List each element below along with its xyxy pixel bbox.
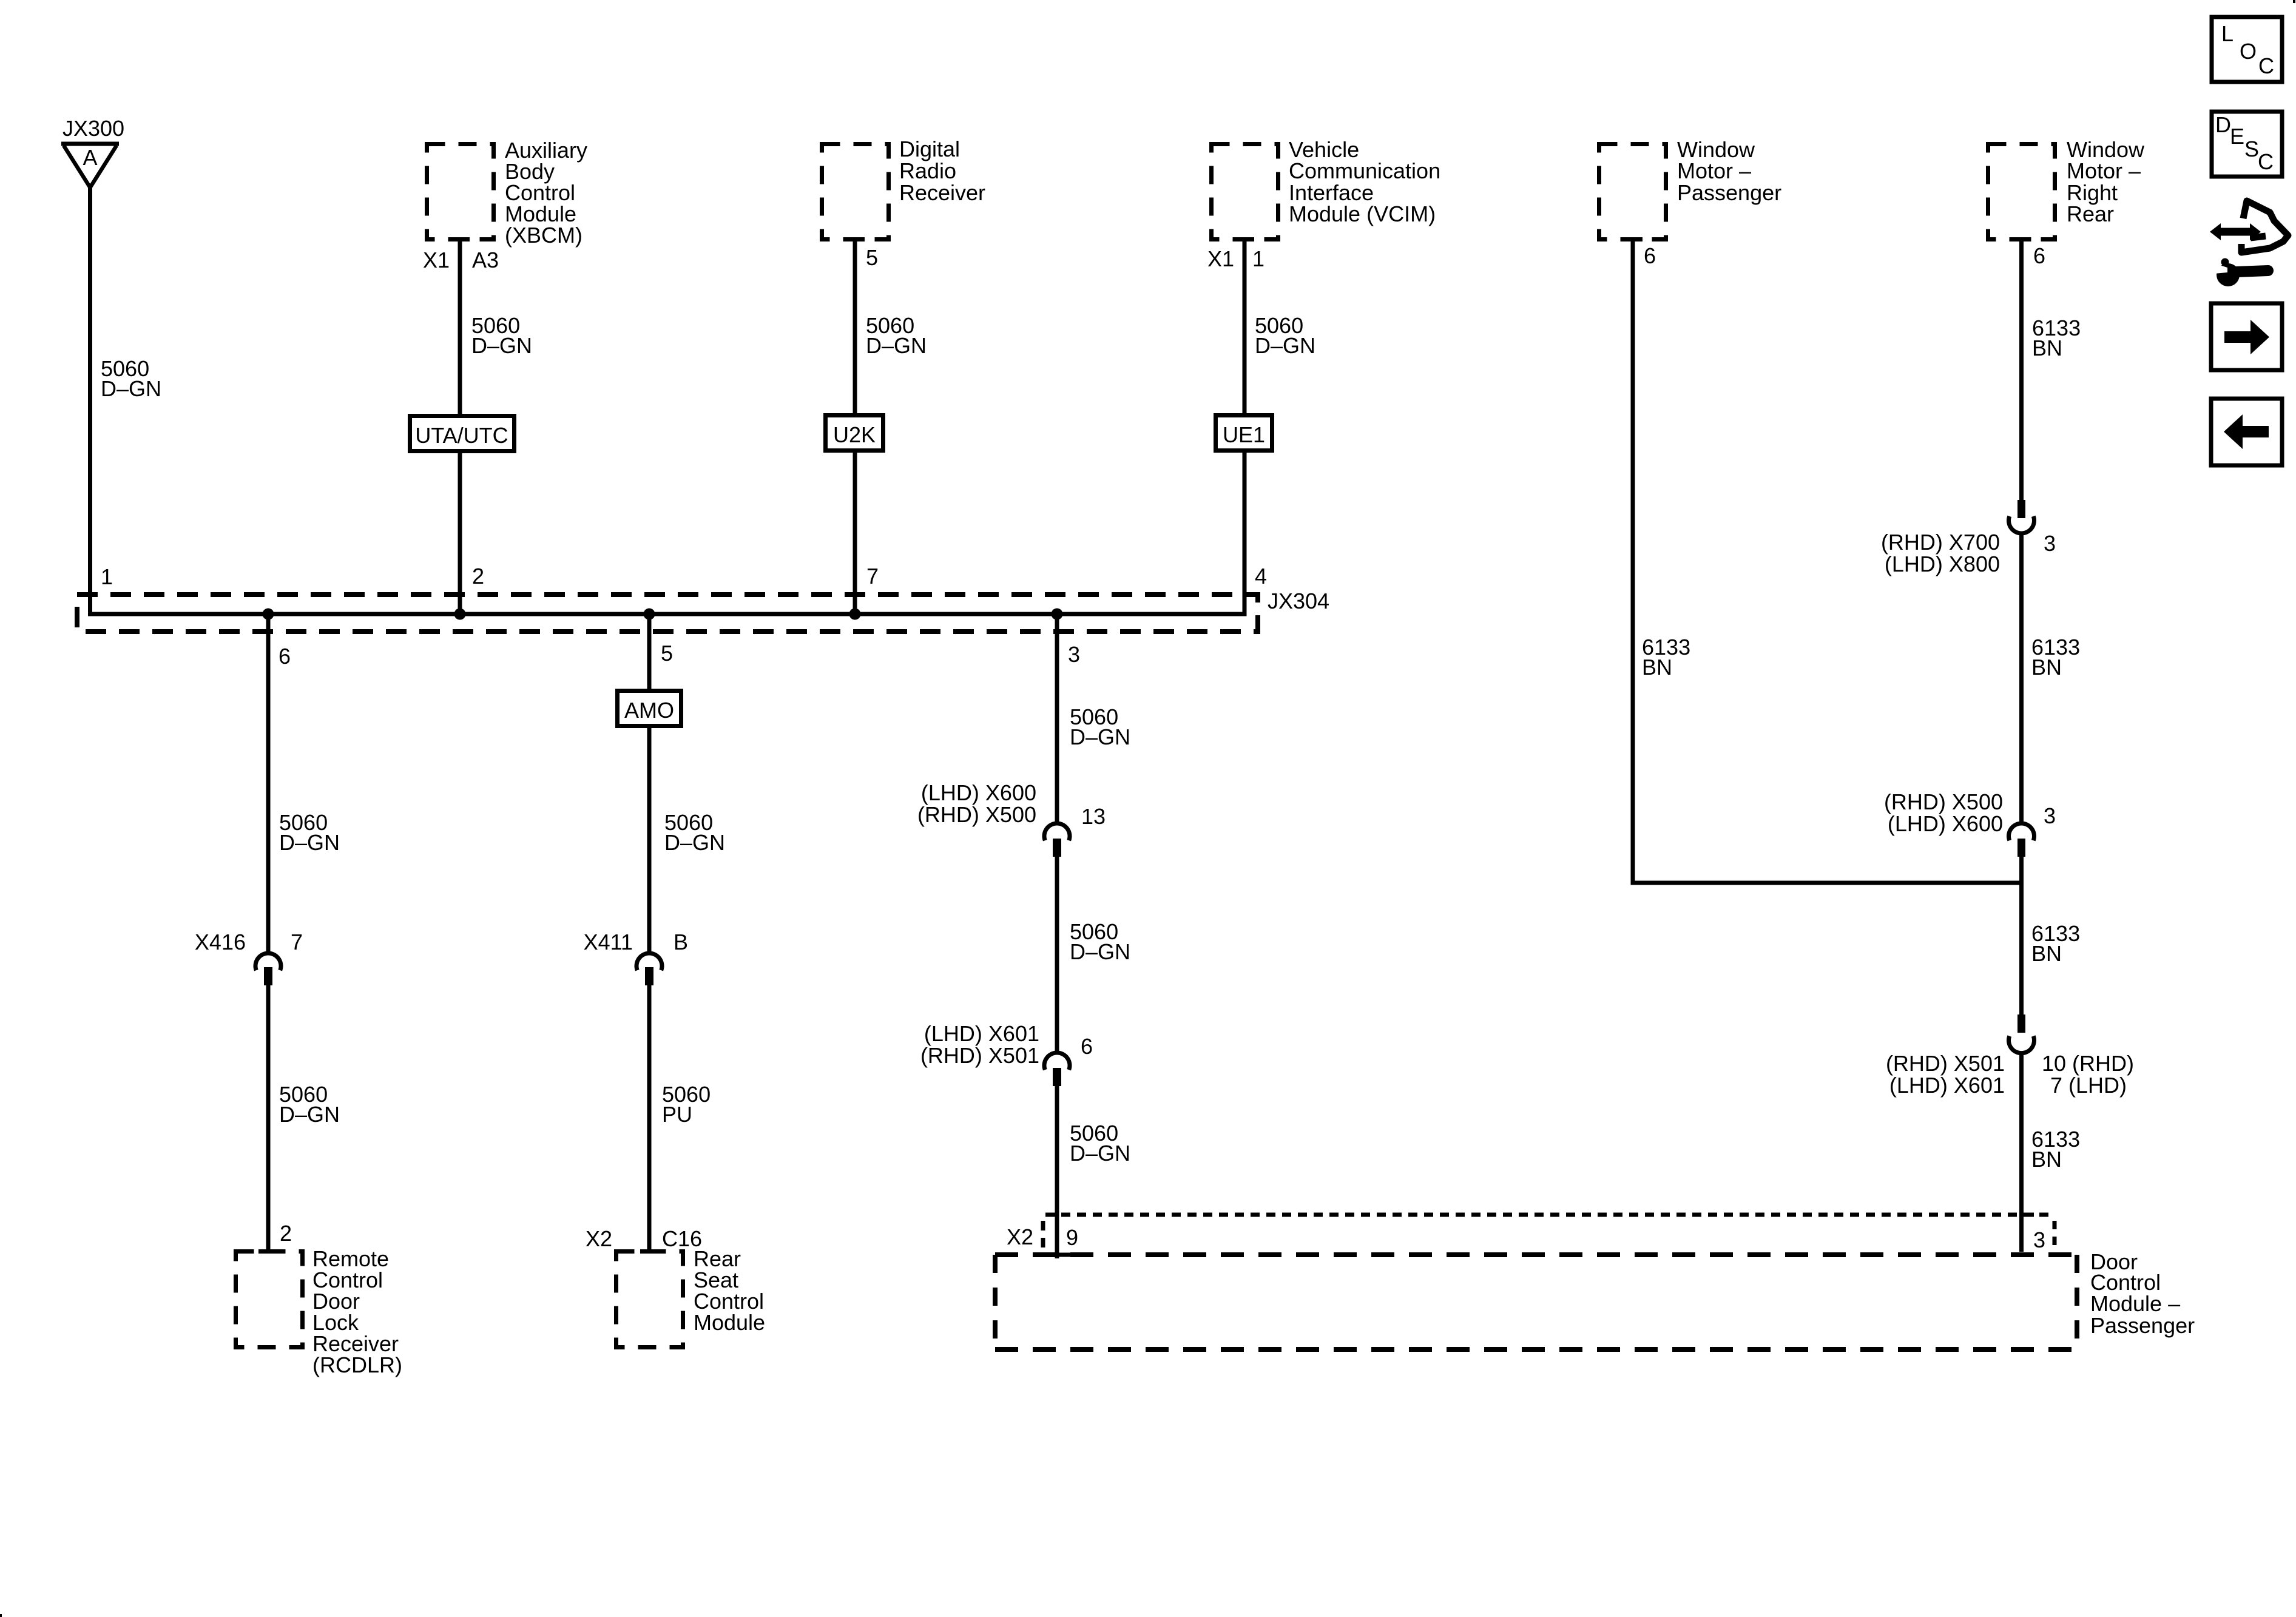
svg-text:Radio: Radio: [899, 158, 956, 183]
svg-text:(RHD) X700: (RHD) X700: [1881, 530, 2000, 555]
svg-text:Module –: Module –: [2090, 1291, 2180, 1316]
svg-text:9: 9: [1066, 1225, 1078, 1250]
svg-text:(LHD) X800: (LHD) X800: [1885, 552, 2000, 576]
svg-text:JX304: JX304: [1268, 589, 1329, 613]
svg-text:7: 7: [866, 564, 879, 589]
svg-text:Digital: Digital: [899, 137, 960, 161]
svg-text:D–GN: D–GN: [1070, 939, 1130, 964]
svg-text:(LHD) X600: (LHD) X600: [1888, 811, 2003, 836]
svg-text:(RHD) X501: (RHD) X501: [920, 1043, 1039, 1068]
svg-text:C: C: [2258, 149, 2274, 174]
svg-text:BN: BN: [1642, 655, 1672, 680]
svg-text:(RHD) X500: (RHD) X500: [917, 802, 1036, 827]
svg-text:3: 3: [2033, 1227, 2045, 1252]
svg-text:X1: X1: [423, 248, 450, 272]
svg-text:BN: BN: [2031, 1147, 2062, 1172]
svg-text:D: D: [2215, 112, 2231, 137]
svg-text:BN: BN: [2032, 336, 2062, 360]
svg-text:6: 6: [1644, 243, 1656, 268]
svg-text:4: 4: [1255, 564, 1267, 589]
svg-text:BN: BN: [2031, 941, 2062, 966]
svg-text:(RCDLR): (RCDLR): [312, 1352, 402, 1377]
svg-text:(LHD) X601: (LHD) X601: [924, 1021, 1039, 1046]
svg-text:5: 5: [866, 245, 878, 270]
svg-text:2: 2: [280, 1221, 292, 1246]
svg-text:Receiver: Receiver: [899, 180, 985, 205]
svg-text:L: L: [2221, 21, 2234, 46]
svg-text:BN: BN: [2031, 655, 2062, 680]
svg-text:D–GN: D–GN: [1255, 333, 1315, 358]
svg-text:2: 2: [472, 564, 484, 589]
svg-text:PU: PU: [662, 1102, 692, 1127]
svg-text:D–GN: D–GN: [1070, 1141, 1130, 1166]
svg-text:A: A: [83, 145, 97, 170]
svg-text:1: 1: [101, 564, 113, 589]
svg-text:(RHD) X501: (RHD) X501: [1886, 1051, 2005, 1076]
svg-text:UE1: UE1: [1223, 422, 1265, 447]
svg-text:Rear: Rear: [2067, 201, 2114, 226]
svg-text:(LHD) X601: (LHD) X601: [1889, 1073, 2005, 1098]
svg-text:3: 3: [2044, 803, 2056, 828]
svg-text:Motor –: Motor –: [1677, 158, 1751, 183]
svg-text:D–GN: D–GN: [1070, 724, 1130, 749]
svg-text:X1: X1: [1207, 246, 1234, 271]
svg-text:Passenger: Passenger: [2090, 1313, 2195, 1338]
svg-text:AMO: AMO: [624, 698, 674, 723]
svg-text:D–GN: D–GN: [279, 1102, 340, 1127]
svg-text:5: 5: [661, 641, 673, 666]
svg-text:O: O: [2240, 39, 2257, 64]
svg-text:UTA/UTC: UTA/UTC: [415, 423, 508, 448]
svg-text:7: 7: [291, 930, 303, 954]
svg-text:X416: X416: [195, 930, 246, 954]
svg-text:(LHD) X600: (LHD) X600: [921, 780, 1036, 805]
svg-text:U2K: U2K: [833, 422, 876, 447]
svg-text:Communication: Communication: [1289, 158, 1440, 183]
svg-text:Motor –: Motor –: [2067, 158, 2141, 183]
svg-text:Passenger: Passenger: [1677, 180, 1781, 205]
svg-text:A3: A3: [472, 248, 499, 272]
svg-text:Module: Module: [694, 1310, 765, 1335]
svg-text:D–GN: D–GN: [664, 830, 725, 855]
svg-text:1: 1: [1252, 246, 1264, 271]
svg-text:B: B: [674, 930, 688, 954]
svg-text:6: 6: [279, 644, 291, 669]
svg-text:X411: X411: [584, 930, 633, 954]
svg-text:3: 3: [1068, 642, 1080, 667]
svg-text:D–GN: D–GN: [279, 830, 340, 855]
svg-text:10 (RHD): 10 (RHD): [2042, 1051, 2134, 1076]
svg-text:D–GN: D–GN: [471, 333, 532, 358]
svg-text:6: 6: [1081, 1034, 1093, 1059]
svg-text:(RHD) X500: (RHD) X500: [1884, 789, 2003, 814]
svg-text:X2: X2: [1007, 1224, 1033, 1249]
svg-text:S: S: [2244, 137, 2259, 161]
svg-text:13: 13: [1081, 804, 1106, 829]
svg-text:D–GN: D–GN: [866, 333, 927, 358]
svg-text:D–GN: D–GN: [101, 376, 161, 401]
svg-text:6: 6: [2033, 243, 2045, 268]
svg-text:(XBCM): (XBCM): [505, 223, 582, 248]
svg-text:Module (VCIM): Module (VCIM): [1289, 201, 1436, 226]
svg-text:7 (LHD): 7 (LHD): [2050, 1073, 2127, 1098]
svg-text:3: 3: [2044, 531, 2056, 556]
svg-text:C: C: [2258, 53, 2274, 78]
svg-text:X2: X2: [586, 1226, 612, 1251]
svg-text:JX300: JX300: [62, 116, 124, 141]
svg-text:E: E: [2230, 124, 2244, 149]
